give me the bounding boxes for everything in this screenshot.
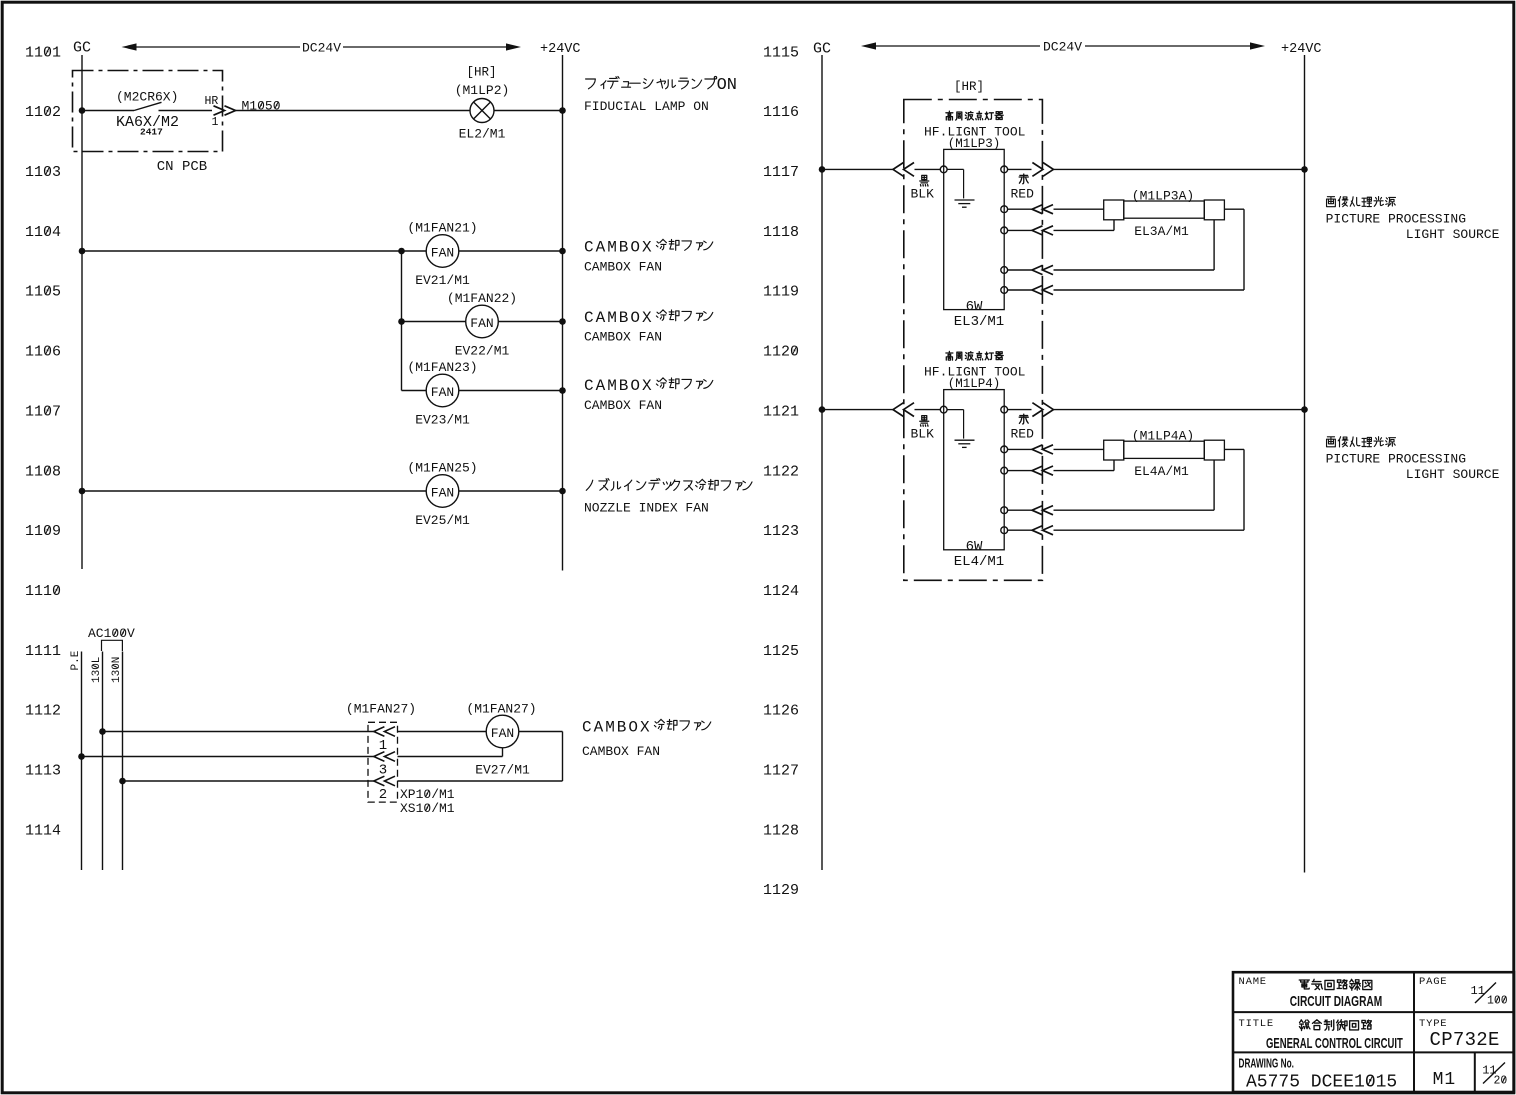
svg-text:1101: 1101 bbox=[25, 44, 61, 61]
svg-text:CAMBOX FAN: CAMBOX FAN bbox=[582, 744, 660, 759]
svg-text:CAMBOX: CAMBOX bbox=[582, 719, 652, 737]
svg-text:DC24V: DC24V bbox=[302, 41, 341, 56]
svg-text:PICTURE PROCESSING: PICTURE PROCESSING bbox=[1326, 212, 1466, 227]
svg-text:BLK: BLK bbox=[911, 186, 935, 201]
svg-text:1125: 1125 bbox=[763, 643, 799, 660]
svg-text:1: 1 bbox=[212, 116, 219, 129]
svg-text:EL3A/M1: EL3A/M1 bbox=[1134, 224, 1189, 239]
svg-text:1124: 1124 bbox=[763, 583, 799, 600]
svg-text:1105: 1105 bbox=[25, 284, 61, 301]
svg-text:GC: GC bbox=[73, 40, 91, 57]
svg-text:1116: 1116 bbox=[763, 104, 799, 121]
svg-text:EV23/M1: EV23/M1 bbox=[415, 413, 470, 428]
svg-text:FAN: FAN bbox=[431, 246, 454, 261]
svg-text:CIRCUIT DIAGRAM: CIRCUIT DIAGRAM bbox=[1290, 993, 1382, 1009]
svg-text:ON: ON bbox=[717, 76, 737, 95]
svg-text:1127: 1127 bbox=[763, 763, 799, 780]
svg-text:P.E: P.E bbox=[70, 650, 82, 670]
svg-text:1103: 1103 bbox=[25, 164, 61, 181]
svg-text:EV22/M1: EV22/M1 bbox=[455, 344, 510, 359]
svg-text:[HR]: [HR] bbox=[466, 66, 496, 80]
svg-text:EL2/M1: EL2/M1 bbox=[459, 127, 506, 142]
svg-text:2417: 2417 bbox=[140, 126, 163, 137]
svg-text:(M1LP3A): (M1LP3A) bbox=[1132, 189, 1194, 204]
svg-text:1126: 1126 bbox=[763, 703, 799, 720]
svg-text:NOZZLE INDEX FAN: NOZZLE INDEX FAN bbox=[584, 501, 709, 516]
svg-text:(M1LP4A): (M1LP4A) bbox=[1132, 429, 1194, 444]
svg-text:130N: 130N bbox=[111, 657, 123, 683]
svg-text:CN PCB: CN PCB bbox=[157, 159, 207, 175]
svg-text:CAMBOX FAN: CAMBOX FAN bbox=[584, 330, 662, 345]
svg-text:1118: 1118 bbox=[763, 224, 799, 241]
svg-text:BLK: BLK bbox=[911, 427, 935, 442]
svg-text:(M1FAN27): (M1FAN27) bbox=[346, 701, 416, 716]
svg-text:EV25/M1: EV25/M1 bbox=[415, 513, 470, 528]
svg-text:(M1FAN22): (M1FAN22) bbox=[447, 291, 517, 306]
svg-text:HR: HR bbox=[205, 95, 219, 108]
svg-text:1107: 1107 bbox=[25, 403, 61, 420]
svg-text:1115: 1115 bbox=[763, 44, 799, 61]
svg-text:1104: 1104 bbox=[25, 224, 61, 241]
svg-text:NAME: NAME bbox=[1239, 976, 1267, 988]
svg-text:1108: 1108 bbox=[25, 463, 61, 480]
svg-text:(M1LP4): (M1LP4) bbox=[948, 377, 1001, 391]
svg-text:6W: 6W bbox=[966, 299, 983, 315]
svg-text:1111: 1111 bbox=[25, 643, 61, 660]
svg-text:DC24V: DC24V bbox=[1043, 40, 1082, 55]
svg-text:100: 100 bbox=[1487, 994, 1508, 1007]
svg-text:1128: 1128 bbox=[763, 822, 799, 839]
svg-text:RED: RED bbox=[1011, 427, 1035, 442]
svg-text:CAMBOX: CAMBOX bbox=[584, 377, 654, 395]
svg-text:3: 3 bbox=[379, 763, 387, 779]
svg-text:CAMBOX FAN: CAMBOX FAN bbox=[584, 398, 662, 413]
svg-text:EV21/M1: EV21/M1 bbox=[415, 273, 470, 288]
svg-text:(M1LP2): (M1LP2) bbox=[455, 83, 510, 98]
svg-text:M1: M1 bbox=[1433, 1070, 1457, 1090]
svg-text:GENERAL CONTROL CIRCUIT: GENERAL CONTROL CIRCUIT bbox=[1266, 1035, 1403, 1052]
svg-text:CAMBOX: CAMBOX bbox=[584, 309, 654, 327]
svg-text:EL3/M1: EL3/M1 bbox=[954, 314, 1004, 330]
svg-text:1117: 1117 bbox=[763, 164, 799, 181]
svg-text:1106: 1106 bbox=[25, 344, 61, 361]
svg-text:EL4/M1: EL4/M1 bbox=[954, 554, 1004, 570]
svg-text:1114: 1114 bbox=[25, 822, 61, 839]
svg-text:AC100V: AC100V bbox=[88, 626, 135, 641]
svg-text:1: 1 bbox=[379, 738, 387, 754]
svg-text:PAGE: PAGE bbox=[1419, 976, 1447, 988]
svg-text:(M1FAN23): (M1FAN23) bbox=[407, 360, 477, 375]
svg-text:1113: 1113 bbox=[25, 763, 61, 780]
svg-text:1121: 1121 bbox=[763, 403, 799, 420]
svg-text:[HR]: [HR] bbox=[954, 80, 984, 94]
svg-text:2: 2 bbox=[379, 787, 387, 803]
svg-text:CP732E: CP732E bbox=[1430, 1029, 1500, 1051]
svg-text:CAMBOX: CAMBOX bbox=[584, 239, 654, 257]
svg-text:1119: 1119 bbox=[763, 284, 799, 301]
svg-text:FAN: FAN bbox=[431, 385, 454, 400]
svg-text:DRAWING No.: DRAWING No. bbox=[1239, 1057, 1294, 1071]
svg-text:1122: 1122 bbox=[763, 463, 799, 480]
svg-text:+24VC: +24VC bbox=[540, 42, 581, 57]
svg-text:FAN: FAN bbox=[491, 726, 514, 741]
svg-text:FAN: FAN bbox=[431, 486, 454, 501]
svg-text:(M2CR6X): (M2CR6X) bbox=[116, 89, 178, 104]
svg-text:PICTURE PROCESSING: PICTURE PROCESSING bbox=[1326, 452, 1466, 467]
svg-text:EV27/M1: EV27/M1 bbox=[475, 763, 530, 778]
svg-text:TITLE: TITLE bbox=[1239, 1018, 1275, 1030]
svg-text:130L: 130L bbox=[91, 657, 103, 683]
svg-text:1102: 1102 bbox=[25, 104, 61, 121]
svg-text:CAMBOX FAN: CAMBOX FAN bbox=[584, 260, 662, 275]
svg-text:(M1FAN21): (M1FAN21) bbox=[407, 221, 477, 236]
svg-text:(M1LP3): (M1LP3) bbox=[948, 137, 1001, 151]
svg-text:EL4A/M1: EL4A/M1 bbox=[1134, 464, 1189, 479]
svg-text:1109: 1109 bbox=[25, 523, 61, 540]
svg-text:+24VC: +24VC bbox=[1281, 42, 1322, 57]
svg-text:FAN: FAN bbox=[470, 316, 493, 331]
svg-text:LIGHT SOURCE: LIGHT SOURCE bbox=[1406, 467, 1500, 482]
svg-text:RED: RED bbox=[1011, 186, 1035, 201]
svg-text:1123: 1123 bbox=[763, 523, 799, 540]
svg-text:(M1FAN25): (M1FAN25) bbox=[407, 461, 477, 476]
svg-text:(M1FAN27): (M1FAN27) bbox=[466, 701, 536, 716]
svg-text:A5775 DCEE1015: A5775 DCEE1015 bbox=[1246, 1073, 1397, 1093]
svg-text:1129: 1129 bbox=[763, 882, 799, 899]
svg-text:1112: 1112 bbox=[25, 703, 61, 720]
svg-text:LIGHT SOURCE: LIGHT SOURCE bbox=[1406, 227, 1500, 242]
svg-text:GC: GC bbox=[813, 41, 831, 58]
svg-text:FIDUCIAL LAMP ON: FIDUCIAL LAMP ON bbox=[584, 99, 709, 114]
svg-text:6W: 6W bbox=[966, 539, 983, 555]
